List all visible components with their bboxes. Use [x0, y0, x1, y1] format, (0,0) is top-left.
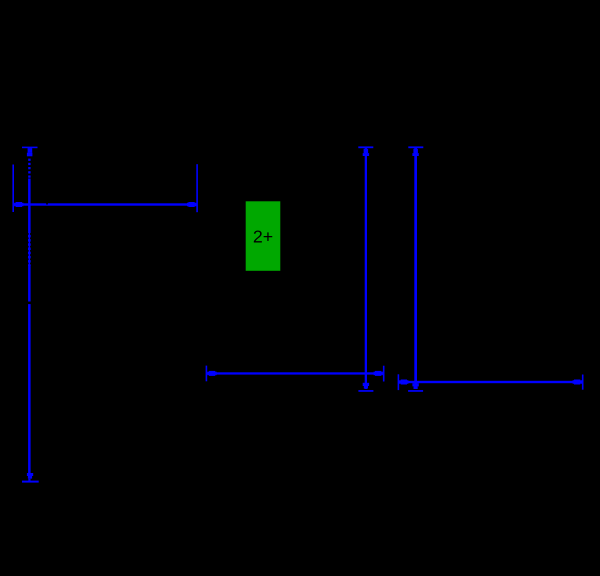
svg-text:2+: 2+: [253, 226, 273, 246]
